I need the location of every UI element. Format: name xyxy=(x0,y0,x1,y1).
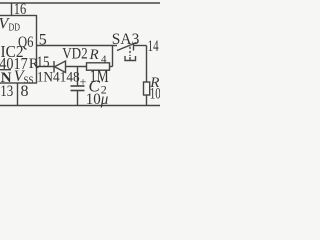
svg-text:4: 4 xyxy=(101,54,107,66)
svg-text:DD: DD xyxy=(9,22,21,34)
svg-text:15: 15 xyxy=(37,54,50,71)
svg-text:10μ: 10μ xyxy=(86,91,109,108)
svg-text:16: 16 xyxy=(14,1,27,18)
svg-text:14: 14 xyxy=(148,38,159,55)
svg-text:1N4148: 1N4148 xyxy=(37,70,80,86)
svg-text:10: 10 xyxy=(150,86,160,103)
svg-text:13: 13 xyxy=(0,83,13,100)
svg-text:R: R xyxy=(89,47,99,63)
svg-text:VD2: VD2 xyxy=(62,46,87,63)
svg-text:8: 8 xyxy=(21,83,29,100)
svg-text:5: 5 xyxy=(39,32,47,49)
svg-text:SA3: SA3 xyxy=(112,31,140,48)
svg-text:+: + xyxy=(80,74,87,88)
